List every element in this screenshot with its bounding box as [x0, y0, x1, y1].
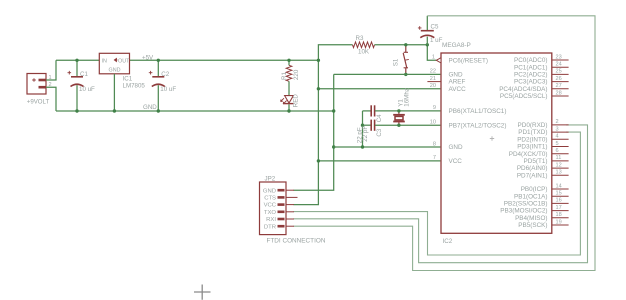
wire AVCC pin20 [318, 88, 440, 90]
junction node GND rail end [332, 109, 335, 112]
junction node C1 top [75, 59, 78, 62]
IC2 pin 16 PB2(SS/OC1B) [504, 198, 569, 208]
JP2 pin 3 VCC [264, 203, 294, 209]
IC2 pin 24 PC1(ADC1) [514, 62, 569, 72]
svg-text:C5: C5 [431, 24, 439, 31]
svg-text:GND: GND [449, 72, 464, 79]
svg-text:20: 20 [430, 83, 436, 89]
svg-text:22 pF: 22 pF [356, 127, 363, 143]
svg-text:6: 6 [556, 148, 559, 154]
svg-text:16: 16 [556, 198, 562, 204]
svg-text:TXO: TXO [264, 210, 277, 216]
net label GND [143, 104, 157, 111]
svg-text:AVCC: AVCC [449, 86, 467, 93]
svg-text:2: 2 [556, 119, 559, 125]
svg-text:9: 9 [433, 105, 436, 111]
wire XTAL1 pin9 [399, 110, 441, 112]
svg-text:DTR: DTR [264, 224, 276, 230]
IC2 pin 9 PB6(XTAL1/TOSC1) [433, 105, 507, 115]
svg-text:15: 15 [556, 191, 562, 197]
crystal Y1 16Mhz [393, 88, 410, 125]
svg-text:10: 10 [430, 120, 436, 126]
junction node C2 top [157, 59, 160, 62]
wire reset net R3 to C5 junction [375, 44, 428, 46]
resistor R1 220 [281, 60, 300, 95]
wire GND pin22 [334, 73, 441, 75]
svg-text:PC6(/RESET): PC6(/RESET) [449, 57, 488, 64]
svg-text:S1: S1 [393, 58, 400, 66]
svg-text:3: 3 [556, 126, 559, 132]
svg-text:PB3(MOSI/OC2): PB3(MOSI/OC2) [500, 208, 547, 215]
wire VCC pin7 [318, 160, 440, 162]
svg-text:23: 23 [556, 54, 562, 60]
svg-text:5: 5 [556, 141, 559, 147]
IC2 pin 25 PC2(ADC2) [514, 69, 569, 79]
svg-text:26: 26 [556, 76, 562, 82]
svg-text:PD5(T1): PD5(T1) [524, 158, 548, 165]
svg-text:VCC: VCC [449, 158, 463, 165]
IC2 pin 28 PC5(ADC5/SCL) [500, 90, 569, 100]
svg-text:PB6(XTAL1/TOSC1): PB6(XTAL1/TOSC1) [449, 108, 507, 115]
svg-text:4: 4 [556, 134, 559, 140]
junction node LED bottom [287, 109, 290, 112]
svg-text:PD7(AIN1): PD7(AIN1) [517, 172, 548, 179]
svg-text:24: 24 [556, 62, 562, 68]
svg-text:IN: IN [102, 58, 107, 64]
wire +5V rail right segment [130, 59, 319, 61]
junction node C2 bottom [157, 109, 160, 112]
IC2 pin 10 PB7(XTAL2/TOSC2) [430, 120, 507, 130]
svg-text:17: 17 [556, 205, 562, 211]
svg-text:PD6(AIN0): PD6(AIN0) [517, 165, 548, 172]
svg-text:11: 11 [556, 155, 562, 161]
svg-text:220: 220 [293, 69, 300, 80]
svg-text:18: 18 [556, 212, 562, 218]
svg-text:1: 1 [432, 55, 435, 61]
wire 9V pin1 to +5V rail [46, 60, 56, 80]
capacitor C4 22pF [362, 105, 399, 141]
svg-text:PB5(SCK): PB5(SCK) [518, 222, 547, 229]
svg-text:PC4(ADC4/SDA): PC4(ADC4/SDA) [499, 86, 547, 93]
IC2 pin 21 AREF [427, 76, 465, 86]
switch S1 [393, 45, 409, 75]
svg-text:28: 28 [556, 90, 562, 96]
IC2 pin 6 PD4(XCK/T0) [509, 148, 569, 158]
wire +5V down to JP2 VCC [294, 60, 319, 204]
svg-text:16Mhz: 16Mhz [404, 88, 411, 107]
junction node R1 top [287, 59, 290, 62]
junction node caps gnd at pin8 line [361, 145, 364, 148]
svg-text:IC1: IC1 [123, 75, 133, 82]
capacitor C1 10uF [68, 60, 96, 111]
svg-text:GND: GND [143, 104, 157, 111]
wire TXD pin3 to JP2 TXO [294, 132, 581, 255]
svg-text:PD4(XCK/T0): PD4(XCK/T0) [509, 151, 548, 158]
capacitor C5 1uF [418, 16, 443, 45]
svg-text:PC1(ADC1): PC1(ADC1) [514, 64, 548, 71]
svg-text:IC2: IC2 [443, 238, 453, 245]
svg-text:C2: C2 [161, 71, 169, 78]
IC2 pin 8 GND [433, 141, 463, 151]
svg-text:RXI: RXI [266, 217, 276, 223]
junction node S1 bottom [404, 73, 407, 76]
wire DTR net C5 top around to JP2 DTR [294, 16, 596, 271]
sheet origin cross [194, 285, 211, 300]
svg-text:RED: RED [293, 94, 300, 108]
IC2 pin 12 PD6(AIN0) [517, 162, 569, 172]
svg-text:PD1(TXD): PD1(TXD) [518, 129, 547, 136]
connector JP1 +9VOLT [27, 74, 52, 106]
svg-text:CTS: CTS [264, 196, 276, 202]
svg-text:27: 27 [556, 83, 562, 89]
junction node GND pin8 tap [332, 145, 335, 148]
IC2 pin 4 PD2(INT0) [517, 134, 568, 144]
svg-text:VCC: VCC [264, 203, 277, 209]
IC2 pin 26 PC3(ADC3) [514, 76, 569, 86]
svg-text:AREF: AREF [449, 79, 466, 86]
svg-text:OUT: OUT [118, 58, 130, 64]
svg-text:PC0(ADC0): PC0(ADC0) [514, 57, 548, 64]
junction node AVCC tap [317, 87, 320, 90]
resistor R3 10K [353, 35, 375, 56]
IC2 pin 15 PB1(OC1A) [514, 191, 569, 201]
JP2 pin 4 TXO [264, 210, 294, 216]
svg-text:8: 8 [433, 141, 436, 147]
net label +5V [142, 54, 154, 61]
junction node C5 reset tap [426, 43, 429, 46]
svg-text:1 uF: 1 uF [430, 37, 443, 44]
JP2 pin 2 CTS [264, 196, 297, 202]
wire GND vertical to JP2 GND [294, 74, 334, 190]
wire +5V rail left segment [56, 59, 99, 61]
IC2 pin 13 PD7(AIN1) [517, 170, 569, 180]
junction node 7805 GND at rail [113, 109, 116, 112]
svg-text:GND: GND [449, 144, 464, 151]
IC2 pin 7 VCC [433, 155, 462, 165]
svg-text:C4: C4 [376, 114, 383, 122]
wire GND rail [56, 110, 334, 112]
capacitor C2 10uF [149, 60, 177, 111]
svg-text:C3: C3 [376, 128, 383, 136]
IC2 pin 11 PD5(T1) [524, 155, 569, 165]
svg-text:PC3(ADC3): PC3(ADC3) [514, 79, 548, 86]
junction node crystal top [397, 109, 400, 112]
svg-text:GND: GND [109, 67, 121, 73]
IC U2 MEGA8-P body [441, 42, 552, 245]
junction node crystal bottom [397, 124, 400, 127]
IC2 pin 2 PD0(RXD) [518, 119, 569, 129]
IC2 pin 22 GND [430, 69, 463, 79]
IC2 pin 23 PC0(ADC0) [514, 54, 569, 64]
svg-text:25: 25 [556, 69, 562, 75]
svg-text:JP2: JP2 [265, 176, 276, 183]
IC2 pin 1 PC6(/RESET) [432, 55, 488, 65]
svg-text:MEGA8-P: MEGA8-P [442, 42, 471, 49]
svg-text:GND: GND [263, 188, 276, 194]
connector JP2 FTDI body [260, 176, 326, 245]
svg-text:R3: R3 [356, 35, 364, 42]
svg-text:19: 19 [556, 219, 562, 225]
junction node VCC tap [317, 159, 320, 162]
svg-text:R1: R1 [281, 72, 288, 80]
svg-text:LM7805: LM7805 [123, 82, 146, 89]
svg-text:22: 22 [430, 69, 436, 75]
svg-text:21: 21 [430, 76, 436, 82]
junction node C3 gnd tap [361, 124, 364, 127]
svg-text:PB1(OC1A): PB1(OC1A) [514, 193, 548, 200]
svg-text:PC2(ADC2): PC2(ADC2) [514, 72, 548, 79]
IC2 pin 18 PB4(MISO) [515, 212, 569, 222]
svg-text:PB7(XTAL2/TOSC2): PB7(XTAL2/TOSC2) [449, 122, 507, 129]
svg-text:PB0(ICP): PB0(ICP) [521, 186, 548, 193]
wire +5V riser to R3 pullup [318, 45, 352, 61]
svg-text:12: 12 [556, 162, 562, 168]
voltage regulator IC1 LM7805 [99, 53, 145, 111]
JP2 pin 5 RXI [266, 217, 294, 223]
junction node S1 top [404, 43, 407, 46]
IC2 pin 17 PB3(MOSI/OC2) [500, 205, 568, 215]
wire 9V pin2 to GND rail [46, 87, 56, 111]
wire crystal caps ground vertical [362, 111, 364, 147]
svg-text:10K: 10K [358, 49, 370, 56]
IC2 pin 5 PD3(INT1) [517, 141, 568, 151]
svg-text:PD2(INT0): PD2(INT0) [517, 136, 547, 143]
junction node +5V rail end [317, 59, 320, 62]
capacitor C3 22pF [356, 120, 399, 144]
svg-text:PB4(MISO): PB4(MISO) [515, 215, 547, 222]
junction node C1 bottom [75, 109, 78, 112]
svg-text:13: 13 [556, 170, 562, 176]
IC2 pin 3 PD1(TXD) [518, 126, 568, 136]
svg-text:C1: C1 [80, 71, 88, 78]
svg-text:+9VOLT: +9VOLT [27, 99, 50, 106]
svg-text:7: 7 [433, 155, 436, 161]
svg-text:14: 14 [556, 183, 562, 189]
svg-text:FTDI CONNECTION: FTDI CONNECTION [267, 237, 326, 244]
svg-text:PD0(RXD): PD0(RXD) [518, 122, 548, 129]
svg-text:+5V: +5V [142, 54, 154, 61]
svg-text:10 uF: 10 uF [160, 86, 176, 93]
wire XTAL2 pin10 [399, 124, 441, 126]
IC2 pin 19 PB5(SCK) [518, 219, 568, 229]
wire reset down to pin1 [427, 45, 436, 61]
wire RXD pin2 to JP2 RXI [294, 125, 588, 263]
svg-text:10 uF: 10 uF [79, 86, 95, 93]
IC2 pin 27 PC4(ADC4/SDA) [499, 83, 568, 93]
wire GND pin8 [334, 146, 441, 148]
JP2 pin 6 DTR [264, 224, 294, 230]
svg-text:PC5(ADC5/SCL): PC5(ADC5/SCL) [500, 93, 548, 100]
IC2 pin 20 AVCC [430, 83, 466, 93]
JP2 pin 1 GND [263, 188, 294, 194]
LED1 RED [281, 94, 300, 111]
svg-text:PB2(SS/OC1B): PB2(SS/OC1B) [504, 201, 548, 208]
svg-text:PD3(INT1): PD3(INT1) [517, 144, 547, 151]
IC2 pin 14 PB0(ICP) [521, 183, 569, 193]
